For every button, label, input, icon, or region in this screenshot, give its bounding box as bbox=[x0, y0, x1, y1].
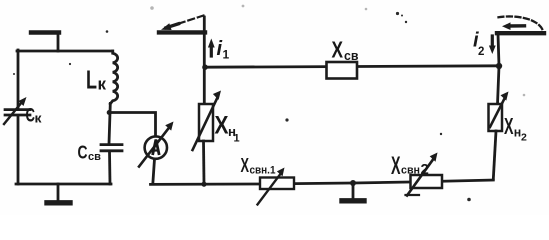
reactance Xcb box bbox=[327, 62, 358, 79]
wire: tank left side upper bbox=[17, 50, 20, 108]
Xsvn2 variability arrow bbox=[407, 160, 433, 196]
ground (middle) bar bbox=[342, 198, 364, 203]
svg-text:L: L bbox=[86, 65, 97, 95]
reactance Xh2 box bbox=[489, 104, 503, 131]
wire: tank left side lower bbox=[17, 116, 20, 184]
wire: junction to ammeter bbox=[109, 113, 155, 137]
svg-text:свн: свн bbox=[401, 165, 420, 177]
svg-text:X: X bbox=[215, 112, 229, 140]
label Xh2 bbox=[504, 113, 527, 144]
svg-text:к: к bbox=[98, 76, 107, 94]
capacitor Ck plates bbox=[5, 110, 30, 115]
wire: Lk bottom to Ccb bbox=[109, 104, 110, 144]
node: junction bus / Xh1 bbox=[201, 182, 206, 187]
svg-text:2: 2 bbox=[521, 132, 527, 144]
svg-text:1: 1 bbox=[234, 133, 240, 145]
capacitor Ccb plates bbox=[101, 145, 122, 151]
inductor Lk coil bbox=[110, 51, 117, 104]
wire: Xh1 to bus bbox=[202, 141, 205, 184]
wire: tank bottom bbox=[16, 183, 111, 186]
capacitor Ck trimmer arrow bbox=[4, 102, 22, 124]
Xh2 variability arrow bbox=[490, 100, 504, 128]
label Ck bbox=[26, 106, 43, 127]
svg-text:C: C bbox=[78, 142, 88, 163]
ground (tank) stub bbox=[57, 184, 60, 201]
wire: bottom bus bbox=[151, 180, 494, 184]
ammeter adjustment arrow bbox=[139, 129, 168, 167]
label Xcb bbox=[332, 37, 359, 64]
wire: right branch vertical lower bbox=[493, 131, 496, 179]
label Xsvn2 bbox=[391, 152, 429, 180]
wire: Ccb to tank bottom bbox=[108, 152, 111, 185]
ammeter letter A bbox=[153, 140, 160, 156]
wire: ammeter to bottom bus bbox=[153, 159, 155, 184]
Xh1 variability arrow bbox=[193, 99, 218, 151]
node: junction 1 on main wire bbox=[202, 64, 208, 70]
node: junction 2 on main wire bbox=[496, 63, 502, 69]
wire: left branch vertical (i1) bbox=[203, 17, 206, 104]
svg-text:X: X bbox=[504, 113, 514, 139]
label i2 bbox=[473, 30, 484, 59]
ground (middle) stub bbox=[352, 183, 355, 200]
wire: tank circuit top bbox=[17, 50, 113, 53]
scan specks (noise) bbox=[13, 12, 471, 201]
short-circuit plunger bar (right) bbox=[497, 31, 544, 35]
label i1 bbox=[217, 38, 230, 62]
current arrow i2 bbox=[491, 36, 494, 46]
reactance Xsvn2 box bbox=[411, 175, 443, 188]
Xsvn1 variability arrow bbox=[258, 173, 282, 205]
label Ccb bbox=[78, 142, 102, 164]
short-circuit bar (tank top) bbox=[31, 30, 59, 34]
wire: main coupling line bbox=[205, 66, 499, 67]
node: top stub of tank bbox=[57, 33, 60, 51]
label Xh1 bbox=[215, 112, 240, 145]
movement dashed arrow (right) bbox=[499, 16, 543, 29]
svg-text:X: X bbox=[241, 155, 250, 177]
svg-text:1: 1 bbox=[223, 48, 230, 62]
svg-text:2: 2 bbox=[478, 46, 484, 58]
movement dashed arrow (left) bbox=[179, 16, 204, 24]
ammeter A circle bbox=[145, 136, 167, 158]
svg-text:св: св bbox=[344, 48, 359, 63]
svg-text:2: 2 bbox=[421, 161, 429, 178]
svg-text:св: св bbox=[88, 151, 101, 163]
wire: right branch vertical upper bbox=[498, 34, 500, 104]
reactance Xsvn1 box bbox=[260, 178, 294, 190]
label Lk bbox=[86, 65, 107, 95]
short-circuit plunger bar (left) bbox=[159, 30, 205, 34]
svg-text:к: к bbox=[35, 111, 43, 126]
label Xsvn1 bbox=[241, 155, 276, 177]
svg-text:X: X bbox=[332, 37, 344, 63]
svg-text:X: X bbox=[391, 152, 401, 180]
node: junction tank/ammeter branch bbox=[107, 110, 112, 115]
node: junction bus / middle ground bbox=[350, 180, 356, 186]
reactance Xh1 box bbox=[199, 104, 213, 141]
ground (tank) bar bbox=[47, 200, 70, 205]
svg-text:свн.1: свн.1 bbox=[250, 165, 276, 177]
current arrow i1 bbox=[210, 46, 213, 56]
